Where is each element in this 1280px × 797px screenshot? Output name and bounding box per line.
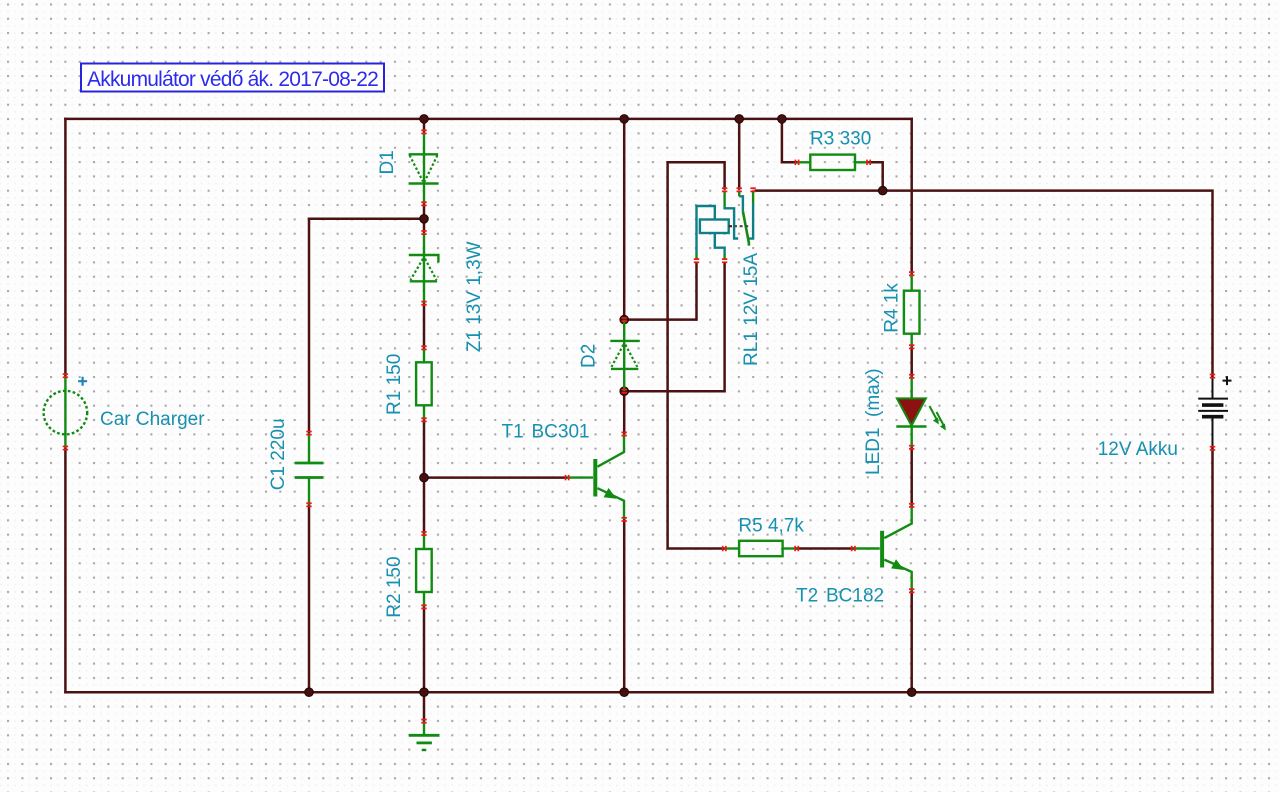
svg-text:T2: T2: [796, 586, 818, 607]
pin tick Z1 bottom: [421, 301, 426, 306]
B1 plate long 2: [1198, 410, 1228, 412]
pin tick R5 right: [794, 546, 799, 551]
wire C1 bottom column: [308, 505, 311, 692]
wire battery top to relay contact row: [756, 191, 1213, 377]
resistor R3 horizontal: [797, 155, 869, 170]
R5 body: [739, 541, 783, 556]
diode D2 pin line: [623, 320, 625, 392]
capacitor C1 bottom pin: [308, 478, 310, 505]
junction R1 R2 T1 base: [420, 473, 429, 482]
LED1 bottom pin: [911, 427, 913, 448]
T1 base bar: [593, 459, 597, 497]
diode D1 dashed side right: [425, 155, 438, 181]
relay RL1: [697, 196, 754, 254]
capacitor C1 top pin: [308, 433, 310, 463]
wire top rail: [65, 118, 911, 121]
RL1 coil top lead to pin1: [697, 206, 715, 254]
title frame: [81, 64, 384, 92]
pin tick C1 bottom: [306, 502, 311, 507]
pin tick RL1 common: [722, 187, 727, 192]
pin tick T2 base: [851, 546, 856, 551]
T1 collector diagonal: [598, 434, 625, 467]
diode D1 dashed side left: [410, 155, 423, 181]
wire left rail upper: [64, 119, 67, 376]
svg-text:T1: T1: [502, 422, 524, 443]
RL1 contact B lead: [739, 196, 743, 211]
wire relay contact B to top rail: [738, 119, 741, 189]
T2 base bar: [880, 531, 884, 568]
wire D1 top stub: [423, 119, 426, 132]
resistor R5 horizontal: [724, 541, 796, 556]
pin tick R3 right: [866, 160, 871, 165]
wire right top column to R4: [910, 119, 913, 274]
resistor R1 bottom stub: [423, 405, 425, 420]
zener Z1 cathode bar with hook: [409, 255, 439, 263]
diode D1 cathode bar: [409, 182, 439, 184]
wire relay common contact to R5: [668, 162, 725, 548]
pin tick G1 plus: [63, 373, 68, 378]
svg-text:Akkumulátor védő ák. 2017-08-2: Akkumulátor védő ák. 2017-08-22: [87, 68, 378, 91]
pin tick RL1 coil pin1: [694, 258, 699, 263]
pin tick Z1 top: [421, 230, 426, 235]
wire R3 right branch: [869, 162, 883, 190]
svg-text:(max): (max): [863, 368, 884, 417]
svg-text:D1: D1: [377, 150, 398, 174]
wire bottom rail: [65, 691, 1212, 694]
LED1 top pin: [911, 376, 913, 398]
wire ground stub: [423, 692, 426, 721]
pin tick R2 top: [421, 531, 426, 536]
resistor R2 bottom stub: [423, 592, 425, 607]
wire R2 bottom to rail: [423, 607, 426, 692]
wire node to C1 branch: [309, 218, 424, 221]
svg-text:R4 1k: R4 1k: [882, 283, 903, 333]
RL1 pin2 green stub: [723, 254, 725, 260]
LED1 light arrow 2: [937, 412, 946, 431]
pin tick B1 minus: [1210, 446, 1215, 451]
capacitor C1 top plate: [295, 462, 323, 465]
RL1 contact B pin green stub: [738, 191, 740, 197]
LED1 triangle: [897, 398, 926, 425]
B1 plate short 2: [1202, 415, 1223, 419]
T2 emitter diagonal: [884, 560, 911, 591]
junction top rail D1 column: [420, 115, 429, 124]
wire R4 to LED1: [910, 347, 913, 377]
pin tick G1 minus: [63, 446, 68, 451]
wire top rail to D2: [623, 119, 626, 320]
diode D2 dashed side right: [625, 345, 637, 367]
wire C1 top column: [308, 219, 311, 433]
LED LED1: [896, 376, 946, 447]
svg-text:R5 4,7k: R5 4,7k: [738, 515, 804, 536]
pin tick D1 anode: [421, 129, 426, 134]
ground GND bar3: [422, 749, 427, 751]
svg-text:12V Akku: 12V Akku: [1098, 439, 1178, 460]
R4 body: [904, 291, 920, 334]
RL1 contact C lead: [749, 204, 753, 239]
pin tick R1 top: [421, 345, 426, 350]
diode D1 pin line: [423, 132, 425, 204]
svg-text:BC301: BC301: [532, 422, 590, 443]
ground GND pin: [423, 721, 425, 735]
junction top rail D2 column: [620, 115, 629, 124]
pin tick LED1 cathode: [909, 445, 914, 450]
junction R3 to contact row: [878, 186, 887, 195]
junction D2 cathode: [620, 315, 629, 324]
wire D1 bottom to node: [423, 204, 426, 233]
svg-text:C1 220u: C1 220u: [268, 418, 289, 490]
B1 plus sign: [1223, 376, 1232, 385]
pin tick D2 anode: [622, 389, 627, 394]
pin tick B1 plus: [1210, 374, 1215, 379]
zener Z1 dashed side right: [425, 259, 437, 280]
junction bottom rail T1 emitter: [620, 688, 629, 697]
junction bottom rail ground: [420, 688, 429, 697]
G1 plus sign: [78, 377, 87, 386]
diode D2 dashed side left: [612, 345, 624, 367]
pin tick T1 base: [565, 475, 570, 480]
pin tick R1 bottom: [421, 417, 426, 422]
svg-text:BC182: BC182: [826, 586, 884, 607]
R4 top stub: [911, 274, 913, 291]
diode D1 anode bar: [409, 153, 439, 155]
wire T2 emitter to rail: [910, 591, 913, 692]
zener Z1 dashed side left: [411, 259, 424, 280]
RL1 switch blade: [743, 211, 749, 245]
source G1 pin line: [64, 376, 66, 448]
junction top rail relay column: [735, 115, 744, 124]
junction node D1 C1 Z1: [420, 215, 429, 224]
resistor R2 top stub: [423, 534, 425, 550]
LED1 light arrow 1: [930, 406, 939, 425]
wire left rail lower: [64, 448, 67, 692]
svg-text:Car Charger: Car Charger: [100, 409, 205, 430]
pin tick GND: [421, 719, 426, 724]
pin tick T2 emitter: [909, 588, 914, 593]
T1 base pin: [567, 476, 593, 478]
pin tick RL1 coil pin2: [722, 258, 727, 263]
source G1 Car Charger circle: [44, 391, 88, 435]
RL1 contact C pin green stub: [752, 191, 754, 204]
resistor R1 body: [416, 362, 432, 405]
wire T1 emitter to rail: [623, 519, 626, 692]
pin tick R3 left: [795, 160, 800, 165]
pin tick R4 bottom: [909, 344, 914, 349]
pin tick RL1 contact B: [737, 187, 742, 192]
R4 bottom stub: [911, 334, 913, 347]
svg-text:LED1: LED1: [863, 427, 884, 475]
wire battery bottom to rail: [1211, 448, 1214, 692]
ground GND bar2: [417, 742, 432, 745]
R5 right stub: [783, 547, 797, 549]
T1 emitter arrow: [604, 488, 617, 499]
pin tick D1 cathode: [421, 201, 426, 206]
wire relay coil pin2 to D2 cathode node: [624, 263, 724, 391]
wire Z1 to R1: [423, 303, 426, 348]
capacitor C1 bottom plate: [295, 476, 323, 479]
resistor R4 vertical: [904, 274, 920, 347]
svg-text:R2 150: R2 150: [384, 556, 405, 617]
R3 right stub: [855, 161, 869, 163]
ground GND bar1: [409, 734, 440, 737]
wire base node to T1 base: [424, 476, 567, 479]
pin tick RL1 contact C: [750, 187, 755, 192]
B1 plate short 1: [1202, 403, 1223, 407]
resistor R1 top stub: [423, 348, 425, 363]
RL1 common contact lead: [725, 207, 739, 239]
zener Z1 anode base: [410, 280, 437, 282]
junction D2 anode: [620, 387, 629, 396]
B1 bottom pin: [1212, 417, 1214, 449]
svg-text:D2: D2: [579, 344, 600, 368]
wire R5 to T2 base: [797, 547, 854, 550]
svg-text:R1 150: R1 150: [384, 354, 405, 415]
wire R1 to R2 through base node: [423, 420, 426, 534]
RL1 common pin green stub: [723, 191, 725, 207]
R3 body: [810, 155, 855, 170]
wire LED1 to T2 collector: [910, 447, 913, 505]
junction bottom rail T2 emitter: [907, 688, 916, 697]
transistor T1 BC301: [567, 434, 624, 519]
pin tick T2 collector: [909, 503, 914, 508]
pin tick T1 collector: [622, 432, 627, 437]
svg-text:Z1 13V 1,3W: Z1 13V 1,3W: [464, 241, 485, 352]
svg-text:RL1 12V 15A: RL1 12V 15A: [741, 253, 762, 366]
pin tick D2 cathode: [622, 317, 627, 322]
wire R3 left branch: [782, 119, 797, 162]
pin tick R5 left: [722, 546, 727, 551]
pin tick R2 bottom: [421, 604, 426, 609]
junction bottom rail C1: [305, 688, 314, 697]
diode D2 anode base: [611, 368, 638, 370]
R3 left stub: [797, 161, 810, 163]
pin tick LED1 anode: [909, 374, 914, 379]
wire relay coil pin1 to D2 anode node: [624, 263, 696, 320]
R5 left stub: [724, 547, 739, 549]
RL1 coil box: [700, 220, 729, 234]
RL1 coil bottom lead to pin2: [715, 233, 725, 254]
pin tick R4 top: [909, 271, 914, 276]
LED1 cathode bar: [896, 425, 926, 427]
pin tick T1 emitter: [622, 517, 627, 522]
RL1 actuator dashed link: [729, 225, 750, 227]
B1 plate long 1: [1198, 398, 1228, 400]
pin tick C1 top: [306, 431, 311, 436]
diode D2 cathode bar: [610, 340, 640, 342]
T1 emitter diagonal: [598, 488, 625, 519]
transistor T2 BC182: [853, 505, 911, 590]
RL1 pin1 green stub: [695, 254, 697, 260]
svg-text:R3 330: R3 330: [810, 129, 871, 150]
T2 collector diagonal: [884, 505, 911, 538]
resistor R2 body: [416, 549, 432, 592]
battery B1 12V Akku: [1198, 376, 1231, 448]
T2 base pin: [853, 547, 880, 549]
zener Z1 pin line: [423, 233, 425, 304]
wire D2 to T1 collector: [623, 391, 626, 434]
junction top rail R3 column: [778, 115, 787, 124]
B1 top pin: [1212, 376, 1214, 399]
T2 emitter arrow: [891, 559, 904, 570]
